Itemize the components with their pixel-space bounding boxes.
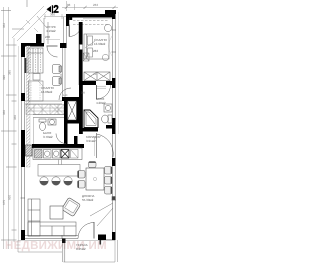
toilet bathroom [102,115,112,123]
dining chair top [89,162,97,168]
svg-text:675: 675 [2,200,6,205]
toilet WC [39,119,46,131]
right wall living window upper [112,134,115,158]
corridor label [86,135,101,143]
stove [61,150,69,159]
svg-text:140: 140 [63,94,68,97]
curtain curve at window [109,36,113,56]
hall label leader [37,16,46,27]
bedroom1 top face line [83,18,112,20]
terrace door leaf [93,222,95,239]
svg-text:4.20м2: 4.20м2 [96,101,106,105]
right wall pier [112,78,116,88]
svg-text:362: 362 [2,23,6,28]
wardrobe bedroom1 [84,72,110,81]
nightstand bedroom2 [33,74,40,81]
bathroom north wall (bedroom south) [79,81,96,85]
counter return lines [59,160,62,165]
svg-text:263: 263 [93,3,98,7]
shaft hatched block left [26,145,33,156]
svg-text:390: 390 [2,75,6,80]
bathroom west wall [79,81,83,134]
top dimension lines [44,1,118,19]
bathroom door leaf [96,85,98,99]
dining chair left 1 [78,171,86,179]
bathroom door arc [97,85,111,99]
tiny top dimension numbers [50,3,98,17]
svg-text:190: 190 [93,73,98,76]
left exterior wall top segment [21,43,25,57]
living room label [82,194,94,202]
kitchen sink [53,150,61,159]
entrance door leaf [68,25,70,37]
left wall living window [21,167,26,230]
window casement dark bar [25,58,27,73]
wall lamp circle bedroom1 [104,24,111,31]
dining chair right 1 [105,167,113,175]
left wall middle segment [21,130,25,167]
living south wall window [25,235,78,239]
svg-text:13.06м2: 13.06м2 [41,90,53,94]
right wall pier 2 [112,118,116,134]
terrace label [76,243,88,251]
fridge [35,150,43,159]
niche gap in wall [80,45,83,50]
left dimension line 1 [3,7,5,249]
left wall window 1 (bedroom2) [21,57,24,93]
left wall bottom corner [21,230,25,240]
wall stub left of entrance door [66,14,69,26]
neighbour terrace left outline [18,240,62,252]
right wall pier 3 [112,158,116,166]
small jamb tick below pier [100,240,102,245]
terrace divider wall [62,239,66,244]
armchair rotated [61,197,80,216]
shaft top cap [62,97,80,101]
WC label [43,131,53,139]
WC south wall [32,144,84,148]
insulation hatch band inner left [27,46,31,167]
svg-text:НЕДВИЖИМИ ИМ: НЕДВИЖИМИ ИМ [5,240,107,252]
sink bathroom [104,104,112,112]
bedroom2 south partition [25,101,62,104]
bed bedroom1 [84,34,109,59]
dining chair right 3 [105,187,113,195]
bedroom2 door leaf [47,45,58,47]
black junction hall-bedroom2 [60,43,67,48]
terrace door arc [78,223,94,239]
shaft left bar [64,97,68,146]
top wall notch right [105,10,116,14]
living room door leaf [96,133,98,158]
bathroom south wall [80,128,98,132]
bedroom1 label leader [85,41,95,48]
counter cell [71,150,79,159]
bottom face line [106,239,112,241]
bedroom2 top exterior wall [21,43,44,47]
living room door arc [97,134,114,157]
bar stool 3 [64,177,72,185]
shaft X box [68,101,77,120]
WC door arc [56,134,66,144]
WC north wall [33,115,64,118]
dim slash ticks top [65,6,116,9]
hall label [45,25,56,39]
stool bedroom1 [102,54,108,60]
nightstand with X bedroom1 [83,53,89,61]
left dimension line 3 [13,38,15,242]
dining chair left 2 [78,181,86,189]
dining table [86,168,104,190]
right wall bedroom window [112,19,117,78]
left wall pier [21,93,25,101]
right wall living window lower [112,166,117,232]
right top corner [112,10,116,19]
svg-text:240: 240 [45,35,50,39]
terrace outline [64,240,118,262]
bedroom2 door arc [47,47,58,58]
terrace divider lower lines [62,243,64,262]
plant lines right [90,203,113,226]
hall small dim line [46,39,60,41]
bar stool 1 [40,177,48,185]
bedroom2 label [41,86,54,94]
bar counter [38,165,80,177]
bathroom label [96,97,106,105]
tiny rotated dimension numbers left [2,23,17,205]
hall-bedroom1 partition [64,17,67,43]
svg-text:13.90м2: 13.90м2 [94,42,106,46]
svg-text:263: 263 [93,49,98,53]
entrance marker number 2 [53,5,58,13]
kitchen counter [33,148,82,160]
shaft bottom cap [64,120,80,124]
right outer dim line [118,12,120,134]
bathroom door threshold lines [97,85,107,87]
entrance door arc [69,25,81,37]
pendant over table [93,177,96,180]
terrace left edge line [18,46,20,240]
dining chair right 2 [105,177,113,185]
top exterior wall (bedroom) [66,14,112,18]
bed bedroom2 [29,81,44,101]
left wall window 2 [21,101,24,130]
svg-text:8.25м2: 8.25м2 [76,247,86,251]
svg-text:88: 88 [67,3,71,7]
sofa corner L [28,199,76,236]
svg-text:240: 240 [81,92,86,95]
shaft right bar [77,99,81,123]
kitchen pier above stove [74,136,78,145]
bath south wall right stub [106,125,115,129]
washer [44,150,52,159]
svg-text:3.70м2: 3.70м2 [43,135,53,139]
svg-text:360: 360 [13,115,17,120]
svg-text:4.19м2: 4.19м2 [46,29,56,33]
svg-text:360: 360 [2,110,6,115]
right wall bath window [112,88,115,118]
entrance marker triangle [47,6,52,12]
hall-bedroom1 black wall [79,22,83,85]
corner shower bathroom [84,110,98,128]
diagonal neighbour boundary lines top-left [12,6,48,41]
svg-text:385: 385 [8,70,12,75]
WC west edge line [33,118,35,145]
dimension tick rows left [1,11,24,241]
wardrobe bedroom2 [28,48,43,73]
bedroom1 label [93,38,107,53]
sink WC [48,119,56,125]
entrance marker bar [52,5,53,13]
armchair 1 bedroom2 [53,65,62,74]
hall door arc to corridor [59,88,71,100]
left dimension line 2 [8,7,10,249]
south wall pier [98,235,106,241]
bottom wall outer face line [18,239,115,241]
bathroom north wall right stub [106,81,116,85]
coffee table [50,206,63,219]
dashed overhang lines in bedroom1 [73,21,108,25]
neighbour wall stubs top-left [27,0,48,44]
closet lattice band corridor [26,105,64,115]
svg-text:660: 660 [8,195,12,200]
right wall bottom corner [112,232,116,240]
pillar at hall corner [36,34,42,46]
bar stool 2 [52,177,60,185]
svg-text:55.39м2: 55.39м2 [82,198,94,202]
bedroom2 east partition [63,48,66,101]
armchair 2 bedroom2 [53,77,62,86]
